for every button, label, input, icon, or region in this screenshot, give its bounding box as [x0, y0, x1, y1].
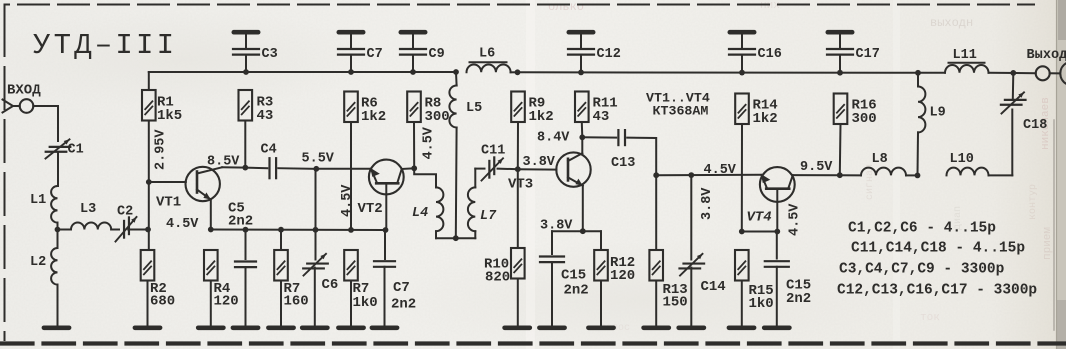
node 5.5V — [313, 166, 319, 172]
svg-text:VT2: VT2 — [358, 201, 383, 217]
svg-text:8.5V: 8.5V — [207, 155, 240, 170]
svg-text:ток: ток — [920, 312, 940, 324]
wire C14 stub — [690, 175, 692, 259]
wire VT3 emitter — [582, 186, 584, 231]
label L11 — [953, 48, 977, 63]
inductor L8 — [861, 168, 906, 176]
label C14 — [701, 279, 726, 295]
svg-text:L8: L8 — [872, 152, 888, 167]
label VT4 — [747, 210, 772, 226]
svg-text:C16: C16 — [758, 47, 782, 62]
capacitor C9 (rail bypass) — [400, 32, 426, 72]
label R1 1k5 — [157, 95, 182, 124]
capacitor C7b — [374, 261, 395, 267]
label VT3 — [508, 177, 533, 193]
label R6 1k2 — [361, 96, 386, 125]
svg-text:C13: C13 — [611, 156, 635, 171]
label VT1..VT4 КТ368АМ — [646, 91, 710, 119]
resistor R15 — [735, 250, 749, 281]
wire +V rail (L6-R9 stub) — [511, 71, 518, 73]
wire R2 to ground — [147, 281, 149, 325]
wire L11 to output — [989, 72, 1036, 74]
svg-text:L4: L4 — [412, 206, 428, 221]
wire L4 bottom — [436, 231, 456, 238]
ground (R4) — [198, 325, 223, 330]
label C17 — [856, 47, 880, 62]
capacitor C7 (rail bypass) — [338, 32, 364, 72]
wire rail to L11 — [918, 72, 945, 74]
svg-text:L2: L2 — [30, 255, 46, 270]
capacitor C1 (trimmer) — [46, 139, 71, 158]
label C3 — [262, 47, 278, 62]
capacitor C11 (trimmer) — [482, 157, 504, 180]
resistor R11 — [575, 92, 589, 123]
node VT1 base — [146, 179, 152, 185]
resistor R10 — [511, 248, 525, 279]
node R14/R15 junction — [739, 229, 745, 235]
svg-text:C1: C1 — [68, 143, 84, 158]
wire R3 to collector node — [244, 121, 246, 168]
label 8.4V — [537, 131, 570, 146]
label L7 — [480, 209, 497, 224]
node VT2 collector — [411, 165, 417, 171]
ground (R10) — [505, 325, 530, 330]
svg-text:9.5V: 9.5V — [800, 160, 833, 175]
wire C6 to ground — [314, 268, 316, 325]
node R7a junction — [278, 227, 284, 233]
label C9 — [429, 47, 445, 62]
wire C1 to L1 — [57, 152, 59, 186]
page right edge band — [1054, 0, 1066, 349]
wire R9 to VT3 base — [517, 122, 519, 169]
output connector X2 — [1036, 63, 1066, 84]
label C12 — [597, 47, 621, 62]
ground (R12) — [588, 325, 613, 330]
capacitor C12 (rail bypass) — [568, 32, 594, 72]
inductor L11 — [945, 65, 989, 73]
svg-text:150: 150 — [663, 295, 688, 311]
node rail L9 — [915, 70, 921, 76]
label C11 — [481, 144, 505, 159]
svg-text:C12,C13,C16,C17 - 3300p: C12,C13,C16,C17 - 3300p — [837, 283, 1037, 299]
wire VT4 collector — [793, 174, 840, 176]
label L9 — [930, 106, 946, 121]
label C15 2n2 (a) — [561, 268, 589, 299]
label L6 — [479, 47, 495, 62]
svg-text:1k0: 1k0 — [353, 295, 378, 311]
svg-text:1k2: 1k2 — [753, 111, 778, 127]
wire R7a stub — [280, 230, 282, 250]
label VT2 — [358, 201, 383, 217]
label R13 150 — [663, 282, 688, 311]
title УТД-III — [33, 29, 177, 62]
svg-text:УТД–III: УТД–III — [33, 29, 177, 62]
wire C18 to output line — [1012, 73, 1015, 100]
node C5 junction — [243, 227, 249, 233]
svg-text:2n2: 2n2 — [228, 214, 253, 230]
svg-text:выходн: выходн — [930, 16, 973, 30]
svg-text:4.5V: 4.5V — [788, 203, 803, 236]
svg-text:C1,C2,C6 - 4..15p: C1,C2,C6 - 4..15p — [848, 221, 996, 237]
svg-text:1k5: 1k5 — [157, 108, 182, 124]
node C13/R13 — [653, 172, 659, 178]
resistor R14 — [735, 94, 749, 125]
wire C5 stub — [245, 230, 247, 259]
svg-text:43: 43 — [257, 108, 274, 124]
wire collector to L4 — [414, 168, 436, 187]
node C14 junction — [688, 172, 694, 178]
ground (R15) — [729, 325, 754, 330]
svg-text:прием: прием — [1042, 227, 1054, 260]
node A (L1/L2/L3 junction) — [55, 223, 61, 248]
label C7 2n2 (emitter cap) — [391, 280, 416, 313]
label R7 1k0 — [353, 281, 378, 311]
wire input to C1 — [33, 106, 58, 141]
label R10 820 — [484, 257, 510, 286]
svg-text:120: 120 — [610, 268, 635, 284]
wire base node down — [148, 182, 150, 250]
resistor R2 — [141, 250, 155, 281]
svg-text:L1: L1 — [30, 193, 46, 208]
ground (C6) — [302, 325, 327, 330]
svg-text:C6: C6 — [322, 277, 339, 293]
label L5 — [466, 101, 482, 116]
svg-text:2n2: 2n2 — [391, 297, 416, 313]
scan artifacts — [526, 0, 1054, 349]
wire C5 to ground — [245, 267, 247, 325]
label C13 — [611, 156, 635, 171]
label R8 300 — [425, 96, 450, 125]
ground (C5) — [233, 325, 258, 330]
wire L7 bottom — [456, 231, 476, 238]
resistor R7a — [274, 250, 288, 281]
svg-text:4.5V: 4.5V — [704, 163, 737, 178]
capacitor C7b stub — [384, 230, 386, 259]
svg-text:C11,C14,C18 - 4..15p: C11,C14,C18 - 4..15p — [851, 241, 1025, 257]
wire L5 to common node — [455, 128, 458, 239]
label R12 120 — [610, 255, 635, 284]
node C2 junction — [145, 227, 151, 233]
label C7 — [367, 47, 383, 62]
label C4 — [261, 143, 277, 158]
svg-text:VT3: VT3 — [508, 177, 533, 193]
node rail R9 — [515, 69, 521, 75]
wire R4 to ground — [210, 281, 212, 325]
wire base node to R10 — [517, 169, 519, 248]
wire VT4 base — [776, 189, 778, 232]
input connector X1 — [3, 99, 34, 113]
label 8.5V — [207, 155, 240, 170]
inductor L3 — [71, 223, 111, 230]
wire C13 to 4.5V node — [627, 138, 656, 176]
inductor L6 — [467, 65, 511, 73]
svg-text:1k2: 1k2 — [361, 109, 386, 125]
resistor R9 — [511, 92, 525, 123]
capacitor C17 (rail bypass) — [827, 32, 853, 72]
inductor L11 core bar — [949, 62, 985, 64]
wire L9 to node — [917, 132, 920, 175]
resistor R7b — [344, 250, 358, 281]
svg-text:820: 820 — [485, 270, 510, 286]
svg-text:C12: C12 — [597, 47, 621, 62]
inductor L10 — [947, 168, 989, 176]
node C18/output — [1010, 70, 1016, 76]
label L2 — [30, 255, 46, 270]
ground (R7a) — [268, 325, 293, 330]
svg-text:L10: L10 — [950, 152, 974, 167]
label R3 43 — [257, 95, 274, 124]
wire C14 to ground — [690, 268, 692, 325]
resistor R16 — [834, 94, 848, 125]
ground (C7b) — [372, 325, 397, 330]
wire R10 to ground — [517, 279, 519, 325]
wire VT3 base wire — [518, 168, 557, 170]
wire emitter to R12 — [583, 231, 601, 250]
svg-text:2n2: 2n2 — [786, 291, 811, 307]
svg-text:ВХОД: ВХОД — [7, 83, 41, 99]
svg-text:2n2: 2n2 — [564, 283, 589, 299]
wire VT1 emitter — [210, 200, 212, 230]
svg-text:C18: C18 — [1023, 118, 1047, 133]
label C2 — [117, 205, 133, 220]
svg-text:Выход: Выход — [1027, 48, 1066, 63]
svg-text:C3: C3 — [262, 47, 278, 62]
node rail C7 — [348, 69, 354, 75]
svg-text:олько: олько — [548, 0, 584, 14]
label 9.5V — [800, 160, 833, 175]
svg-text:3.8V: 3.8V — [523, 155, 556, 170]
svg-text:160: 160 — [284, 294, 309, 310]
label 3.8V (VT3 base) — [523, 155, 556, 170]
wire C2 to base node — [128, 229, 148, 231]
wire collector to C4 — [245, 167, 267, 170]
wire VT2 emitter feed — [316, 168, 371, 170]
wire R8 to VT2 collector — [413, 122, 415, 168]
wire collector to L8 — [840, 174, 861, 176]
label 4.5V (VT4 base) — [788, 203, 803, 236]
node VT3 emitter — [580, 228, 586, 234]
label VT1 — [156, 195, 181, 211]
label 4.5V (VT2 collector) — [422, 126, 437, 159]
resistor R8 — [407, 92, 421, 123]
wire C15a to ground — [551, 262, 553, 325]
wire VT3 collector — [581, 137, 583, 153]
svg-text:C15: C15 — [561, 268, 586, 284]
inductor L5 — [449, 72, 456, 128]
node VT3 collector — [579, 134, 585, 140]
ground (C14) — [679, 325, 704, 330]
capacitor C5 — [235, 262, 256, 268]
label R9 1k2 — [529, 96, 554, 125]
wire R11 to collector — [581, 122, 584, 137]
resistor R4 — [204, 250, 218, 281]
wire L7 top — [475, 169, 484, 188]
inductor L1 — [51, 186, 57, 223]
svg-text:C14: C14 — [701, 279, 726, 295]
label R11 43 — [593, 96, 618, 125]
resistor R1 — [142, 90, 156, 121]
label 5.5V — [302, 152, 335, 167]
node rail L5 — [453, 69, 459, 75]
wire C6 stub — [315, 230, 317, 260]
capacitor C15b stub — [776, 232, 778, 259]
wire R1 to VT1 base — [148, 121, 150, 182]
wire R7a to ground — [280, 281, 282, 325]
note capacitor values — [837, 221, 1037, 299]
resistor R3 — [239, 90, 253, 121]
label Выход — [1027, 48, 1066, 63]
node L8/L9/L10 — [915, 173, 921, 179]
capacitor C15a — [540, 257, 564, 263]
wire R12 to ground — [600, 281, 602, 325]
wire C7b to ground — [384, 267, 386, 325]
node rail C3 — [243, 69, 249, 75]
node VT4 base bias — [774, 229, 780, 235]
label R7 160 — [284, 281, 309, 310]
svg-text:8.4V: 8.4V — [537, 131, 570, 146]
capacitor C4 — [270, 158, 277, 178]
ground (R13) — [644, 325, 669, 330]
label R14 1k2 — [753, 98, 778, 127]
label 4.5V (VT4 emitter feed) — [704, 163, 737, 178]
node VT3 base — [515, 166, 521, 172]
label 2.95V — [154, 129, 169, 170]
label ВХОД — [7, 83, 41, 99]
wire R6 to VT2 base bias — [350, 122, 352, 230]
wire L10 to C18 — [989, 110, 1013, 176]
svg-text:C2: C2 — [117, 205, 133, 220]
wire 4.5V node to VT4 — [656, 174, 761, 176]
wire C11 to VT3 base node — [498, 168, 518, 171]
node VT1 emitter — [208, 227, 214, 233]
label L8 — [872, 152, 888, 167]
wire R15 to ground — [741, 281, 743, 325]
node rail C12 — [578, 70, 584, 76]
svg-text:C7: C7 — [393, 280, 410, 296]
svg-text:120: 120 — [214, 294, 239, 310]
node VT2 base bias — [383, 227, 389, 233]
label R15 1k0 — [749, 283, 774, 312]
svg-text:L6: L6 — [479, 47, 495, 62]
inductor L6 core bar — [470, 61, 507, 63]
label 4.5V (VT2 base) — [340, 184, 355, 217]
wire R13 stub — [655, 175, 657, 250]
ground (C15a) — [539, 325, 564, 330]
label 4.5V (VT1 emitter) — [166, 217, 199, 232]
wire VT1 base wire — [149, 181, 186, 183]
label R4 120 — [214, 281, 239, 310]
label R2 680 — [150, 281, 175, 310]
label C15 2n2 (b) — [786, 278, 811, 308]
capacitor C6 (trimmer) — [303, 254, 328, 276]
node rail C9 — [410, 69, 416, 75]
svg-text:C17: C17 — [856, 47, 880, 62]
svg-text:C11: C11 — [481, 144, 505, 159]
wire C4 to 5.5V node — [278, 167, 316, 170]
capacitor C3 (rail bypass) — [233, 32, 259, 72]
inductor L2 — [51, 248, 57, 285]
svg-text:C9: C9 — [429, 47, 445, 62]
label C18 — [1023, 118, 1047, 133]
node rail C17 — [837, 70, 843, 76]
wire L3 left stub — [58, 229, 72, 231]
node rail C16 — [739, 70, 745, 76]
wire +V rail (left section) — [149, 71, 456, 73]
resistor R6 — [344, 92, 358, 123]
svg-text:1k0: 1k0 — [749, 296, 774, 312]
wire bias bus stage1-2 — [211, 229, 386, 232]
wire rail to R1 — [148, 72, 150, 90]
capacitor C2 (trimmer) — [116, 217, 137, 242]
ground (C15b) — [764, 325, 789, 330]
svg-text:300: 300 — [425, 109, 450, 125]
svg-text:C3,C4,C7,C9 - 3300p: C3,C4,C7,C9 - 3300p — [839, 262, 1005, 278]
transistor VT4 — [760, 167, 795, 202]
svg-text:43: 43 — [593, 109, 610, 125]
svg-text:4.5V: 4.5V — [166, 217, 199, 232]
capacitor C13 — [618, 130, 625, 145]
label C1 — [68, 143, 84, 158]
node R6/R7b junction — [348, 227, 354, 233]
label L4 — [412, 206, 428, 221]
svg-text:1k2: 1k2 — [529, 109, 554, 125]
node L4/L5/L7 common — [453, 235, 459, 241]
wire R16 to collector — [839, 124, 842, 175]
capacitor C14 (trimmer) — [680, 254, 705, 276]
inductor L7 — [468, 187, 475, 231]
label 3.8V (C14) — [700, 187, 715, 220]
label L1 — [30, 193, 46, 208]
wire L2 to ground — [57, 285, 59, 325]
svg-text:680: 680 — [150, 294, 175, 310]
transistor VT3 — [556, 152, 590, 186]
label C16 — [758, 47, 782, 62]
node VT1 collector — [242, 165, 248, 171]
wire C15b to ground — [776, 267, 778, 325]
wire L8 to node — [906, 174, 918, 176]
wire emitter to C15a — [552, 231, 583, 254]
svg-text:3.8V: 3.8V — [700, 187, 715, 220]
capacitor C18 (trimmer) — [1001, 92, 1026, 113]
wire +V rail (right section) — [518, 71, 919, 74]
label C5 2n2 — [228, 201, 253, 230]
node C6 junction — [313, 227, 319, 233]
svg-text:C4: C4 — [261, 143, 277, 158]
svg-text:300: 300 — [852, 111, 877, 127]
ground (input) — [44, 325, 69, 330]
wire R14 to VT4 base bias — [741, 124, 743, 231]
wire VT1 collector to node — [222, 166, 245, 168]
svg-text:L5: L5 — [466, 101, 482, 116]
resistor R13 — [649, 250, 663, 281]
ground (R2) — [135, 325, 160, 330]
wire VT4 bias bus — [742, 231, 778, 233]
inductor L4 — [436, 187, 443, 231]
capacitor C15b — [765, 261, 789, 267]
label 3.8V (VT3 emitter) — [540, 219, 573, 234]
transistor VT1 — [186, 167, 223, 201]
label L10 — [950, 152, 974, 167]
wire R13 to ground — [655, 281, 657, 325]
svg-text:контур: контур — [1028, 184, 1039, 220]
wire collector to C13 — [582, 136, 616, 138]
svg-text:C7: C7 — [367, 47, 383, 62]
resistor R12 — [594, 250, 608, 281]
wire VT2 collector — [402, 167, 415, 170]
svg-text:VT1: VT1 — [156, 195, 181, 211]
svg-text:КТ368АМ: КТ368АМ — [653, 104, 709, 119]
label L3 — [80, 202, 96, 217]
